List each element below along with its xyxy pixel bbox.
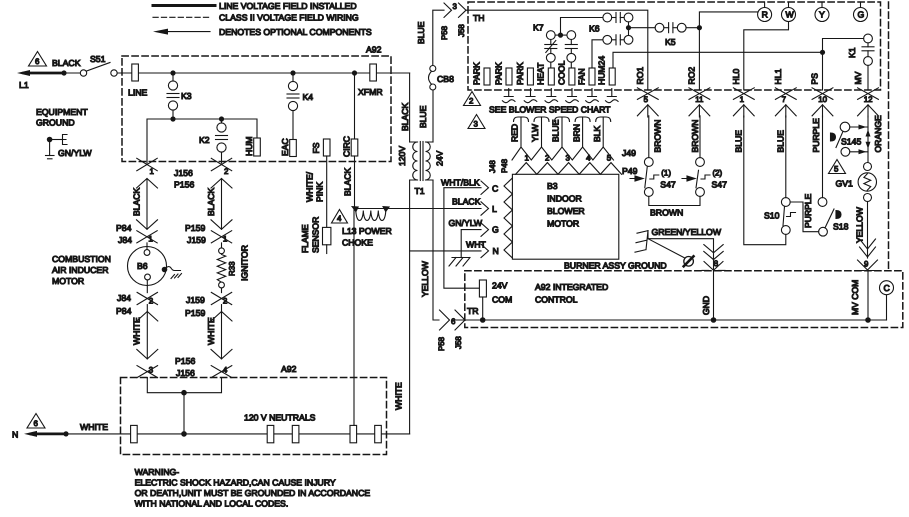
svg-text:3: 3 [566, 154, 571, 163]
svg-text:L: L [492, 204, 497, 214]
wire S51 to LINE terminal [117, 72, 132, 74]
equipment ground label [36, 107, 88, 128]
wire: W to HL0 pin 1 [744, 22, 789, 90]
svg-text:HEAT: HEAT [536, 62, 546, 85]
svg-text:BLACK: BLACK [343, 168, 353, 196]
svg-text:GN/YLW: GN/YLW [58, 148, 92, 158]
wire: junction to K1 [823, 39, 864, 53]
B6 chassis ground symbol [165, 267, 182, 279]
label J159 P159 (lower) [185, 295, 205, 318]
wire: PS pin10 down (PURPLE) [822, 116, 824, 198]
svg-text:120 V NEUTRALS: 120 V NEUTRALS [244, 413, 316, 423]
svg-text:2: 2 [149, 297, 153, 306]
svg-text:BLACK: BLACK [52, 58, 81, 68]
svg-text:WHT: WHT [466, 240, 486, 250]
svg-text:BLACK: BLACK [132, 188, 142, 216]
svg-text:P156: P156 [174, 180, 194, 190]
blower L terminal wire (BLACK) [452, 197, 497, 216]
svg-text:GV1: GV1 [836, 179, 854, 189]
svg-text:BROWN: BROWN [650, 208, 683, 218]
svg-text:P159: P159 [185, 308, 205, 318]
svg-text:ORANGE: ORANGE [873, 115, 883, 153]
svg-text:RED: RED [510, 124, 520, 142]
svg-text:S47: S47 [712, 180, 728, 190]
svg-text:P159: P159 [185, 223, 205, 233]
speed wire RED [510, 117, 529, 147]
terminal HEAT [536, 62, 555, 85]
svg-text:INDOOR: INDOOR [547, 194, 582, 204]
gas valve GV1 [836, 163, 877, 202]
node: TR junction dot [480, 317, 486, 323]
svg-text:CHOKE: CHOKE [342, 238, 373, 248]
terminal LINE [128, 64, 148, 98]
terminal PARK [515, 62, 534, 85]
wire: MV pin12 down (ORANGE) [867, 116, 869, 162]
wire: FS terminal to flame sensor (WHITE/PINK) [305, 156, 327, 227]
connector pin 10 [812, 88, 833, 117]
field wiring hook [566, 89, 579, 103]
terminal CIRC [342, 136, 358, 157]
terminal FAN [576, 68, 595, 85]
svg-text:K2: K2 [199, 135, 210, 145]
equipment ground symbol [46, 135, 93, 159]
svg-text:HUM: HUM [244, 136, 254, 156]
svg-text:BLOWER: BLOWER [547, 206, 585, 216]
svg-text:COMBUSTION: COMBUSTION [52, 254, 111, 264]
triangle note 5 [829, 160, 846, 174]
terminal HUM24 [597, 56, 616, 85]
svg-text:5: 5 [644, 95, 649, 104]
relay contacts K6 [589, 13, 633, 45]
node: PS junction dot [820, 50, 825, 55]
svg-text:WHITE: WHITE [80, 422, 108, 432]
wire: control common bus [483, 319, 887, 321]
svg-text:C: C [492, 184, 498, 194]
svg-text:LINE: LINE [128, 88, 148, 98]
svg-text:B6: B6 [137, 261, 148, 271]
label: combustion air inducer motor [52, 254, 111, 286]
blower C terminal wire (WHT/BLK) [441, 178, 498, 289]
A92 line-voltage control box (dashed) [122, 45, 391, 162]
wire: S47 bottoms joined (BROWN) [649, 196, 700, 217]
label MV COM [850, 271, 868, 321]
speed wire YLW [530, 117, 549, 147]
svg-text:TH: TH [473, 13, 485, 23]
limit switch S10 [764, 198, 796, 235]
ground screw symbol [684, 256, 694, 266]
connector J159 pin 2 [211, 292, 231, 305]
node: N junction dot [63, 431, 68, 436]
wire: CIRC to blower L (BLACK) [343, 156, 482, 209]
burner assy ground wire (GREEN/YELLOW) [635, 227, 723, 270]
connector pin 12 [858, 88, 879, 117]
svg-text:LINE VOLTAGE FIELD INSTALLED: LINE VOLTAGE FIELD INSTALLED [219, 1, 357, 11]
triangle note 6 at L1 [29, 52, 47, 67]
wire: bus to T1 primary (BLACK) [400, 73, 410, 142]
svg-text:AIR INDUCER: AIR INDUCER [52, 265, 108, 275]
wire: S10 top to S18 (PURPLE) [790, 193, 818, 231]
switch S51 [80, 54, 117, 76]
neutral terminal rect 1 [131, 425, 138, 442]
wire: K7 contacts to HEAT/COOL [551, 62, 572, 68]
pressure switch S47 (2) [682, 116, 727, 197]
wire: B6 to pin 2 [146, 280, 148, 293]
svg-text:P58: P58 [440, 25, 449, 40]
connector J156/P156 pin 2 [211, 158, 232, 188]
svg-text:HUM24: HUM24 [597, 56, 607, 85]
svg-text:1: 1 [223, 234, 227, 243]
svg-text:PURPLE: PURPLE [811, 118, 821, 153]
svg-text:P84: P84 [116, 223, 132, 233]
wire: HL1 pin7 down (BLUE) [785, 116, 787, 198]
svg-text:ELECTRIC SHOCK HAZARD,CAN CAUS: ELECTRIC SHOCK HAZARD,CAN CAUSE INJURY [135, 478, 336, 488]
svg-text:1: 1 [150, 167, 154, 176]
svg-text:HL0: HL0 [731, 69, 741, 85]
triangle note 3 [468, 115, 485, 129]
transformer T1 [397, 142, 445, 197]
wire: junction up to R [699, 12, 757, 28]
rollout switch S145 (optional) [831, 122, 871, 156]
svg-text:J58: J58 [457, 24, 466, 37]
svg-text:S47: S47 [660, 180, 676, 190]
wire: pin2 to pin3 (WHITE) with arrows [132, 305, 158, 378]
svg-text:G: G [492, 225, 499, 235]
svg-text:(1): (1) [661, 169, 671, 178]
wire: HL0 pin1 down and across (BLUE) [744, 116, 786, 245]
wire L1 dot to S51 [64, 72, 80, 74]
terminal PARK [471, 62, 490, 85]
node: GND dot [711, 317, 717, 323]
thermostat terminal G [854, 2, 868, 22]
svg-text:24V: 24V [492, 281, 508, 291]
wire: K7 junction to K6 [561, 18, 603, 36]
svg-text:C: C [884, 283, 890, 293]
svg-text:K3: K3 [181, 91, 192, 101]
svg-text:BLACK: BLACK [400, 103, 410, 131]
label J84 P84 (lower) [116, 293, 132, 316]
svg-text:(2): (2) [713, 169, 723, 178]
node: K6 junction dot [626, 25, 631, 30]
svg-text:J49: J49 [622, 148, 636, 158]
svg-text:J159: J159 [186, 295, 205, 305]
svg-text:P58: P58 [437, 336, 446, 351]
svg-text:CLASS II VOLTAGE FIELD WIRING: CLASS II VOLTAGE FIELD WIRING [219, 13, 359, 23]
svg-text:BLUE: BLUE [734, 130, 744, 153]
triangle note 4 (choke) [332, 210, 348, 224]
svg-text:S145: S145 [841, 137, 861, 147]
label J156 P156 (top) [174, 168, 194, 190]
wire: T1 secondary to plug 6 (YELLOW) [420, 180, 439, 320]
pressure switch S47 (1) [630, 116, 676, 197]
node: MV COM dot [865, 317, 871, 323]
speed wire BRN [571, 117, 590, 147]
connector J49 pins 1-5 [512, 147, 636, 163]
svg-text:4: 4 [586, 154, 591, 163]
wire: bus to CIRC terminal [354, 73, 356, 139]
field wiring hook [545, 89, 558, 103]
svg-text:YELLOW: YELLOW [855, 206, 865, 243]
svg-text:6: 6 [35, 57, 40, 66]
label J48 P48 [488, 158, 509, 173]
connector pin 11 [689, 88, 710, 117]
svg-text:BLUE: BLUE [416, 21, 426, 44]
svg-text:YELLOW: YELLOW [420, 260, 430, 297]
svg-text:GND: GND [701, 296, 711, 315]
wire: HUM24 to PS junction [613, 52, 823, 68]
wire: 120V line bus [132, 72, 410, 74]
svg-text:XFMR: XFMR [358, 87, 383, 97]
svg-text:K6: K6 [589, 24, 600, 34]
wire: pins 3,4 join to neutral [147, 378, 221, 393]
terminal FS [311, 139, 330, 156]
svg-text:BROWN: BROWN [653, 120, 663, 153]
triangle note 6 at N [27, 414, 45, 429]
wire: K5 to R junction [686, 27, 699, 29]
svg-text:CIRC: CIRC [342, 136, 352, 157]
motor B6 [128, 243, 167, 286]
svg-text:L1: L1 [19, 80, 29, 90]
svg-text:IGNITOR: IGNITOR [240, 245, 250, 281]
connector pin 9 [858, 260, 878, 271]
svg-text:WHITE/: WHITE/ [305, 171, 315, 202]
svg-text:1: 1 [148, 234, 152, 243]
svg-text:WITH NATIONAL AND LOCAL CODES.: WITH NATIONAL AND LOCAL CODES. [135, 499, 289, 509]
svg-text:2: 2 [224, 167, 228, 176]
node: dot K3 bottom [170, 116, 175, 121]
wire: K6 junction to K5 [629, 27, 656, 29]
svg-text:COM: COM [492, 295, 512, 305]
terminal C circle [880, 281, 894, 320]
node: dot on neutral bus [181, 431, 187, 437]
svg-text:OR DEATH,UNIT MUST BE GROUNDED: OR DEATH,UNIT MUST BE GROUNDED IN ACCORD… [135, 488, 371, 498]
connector P49 sawtooth [516, 163, 638, 176]
legend: line voltage field installed [153, 1, 357, 11]
svg-text:7: 7 [782, 95, 786, 104]
svg-text:J48: J48 [488, 160, 497, 173]
svg-text:K5: K5 [665, 37, 676, 47]
label P159 J159 (top) [185, 223, 206, 245]
circuit breaker CB8 [429, 66, 455, 91]
wire: 24V feed from plug 3 to RO1 [466, 10, 648, 90]
svg-text:11: 11 [695, 95, 703, 104]
svg-text:3: 3 [149, 366, 154, 375]
node: bus dot at K3 [170, 70, 175, 75]
wire: J156 pin2 to ignitor (BLACK) [206, 179, 232, 230]
wire: GV1 down to pin 9 (YELLOW) [855, 202, 876, 259]
svg-text:SEE BLOWER SPEED CHART: SEE BLOWER SPEED CHART [489, 105, 611, 115]
svg-text:N: N [493, 246, 499, 256]
svg-text:CB8: CB8 [437, 74, 454, 84]
svg-text:PARK: PARK [515, 62, 525, 85]
svg-text:BLUE: BLUE [551, 119, 561, 142]
field wiring hook [586, 89, 599, 103]
svg-text:RO2: RO2 [687, 67, 697, 85]
svg-text:W: W [786, 10, 795, 20]
wire: K6 bottom to FAN [592, 40, 603, 68]
wire: T1 secondary to CB8 (BLUE) [418, 90, 433, 142]
svg-text:BLK: BLK [592, 125, 602, 142]
svg-text:SENSOR: SENSOR [311, 217, 321, 253]
svg-text:P49: P49 [622, 166, 638, 176]
legend: class II voltage field wiring [153, 13, 359, 23]
neutral terminal rect 5 [375, 425, 382, 442]
svg-text:BLUE: BLUE [418, 105, 428, 128]
svg-text:PINK: PINK [315, 182, 325, 202]
A92 integrated control box (dashed) [465, 271, 903, 328]
svg-text:J84: J84 [117, 293, 131, 303]
terminal PARK [493, 62, 512, 85]
terminal 24V COM [479, 280, 512, 320]
svg-text:MV COM: MV COM [850, 280, 860, 315]
A92 neutrals box (dashed) [121, 364, 387, 455]
connector P156/J156 pin 3 [149, 366, 154, 375]
svg-text:BROWN: BROWN [690, 120, 700, 153]
legend: denotes optional components arrow [153, 27, 372, 37]
node: junction dot pins3-4 [181, 390, 187, 396]
ignitor R33 [217, 243, 249, 288]
svg-text:8: 8 [714, 259, 719, 268]
wire: junction down to RO2 pin 11 [698, 28, 700, 90]
switch S18 [818, 198, 849, 237]
svg-text:Y: Y [819, 10, 825, 20]
svg-text:A92: A92 [281, 364, 297, 374]
svg-text:R33: R33 [228, 261, 237, 276]
svg-text:3: 3 [474, 120, 479, 129]
node: bus dot at K4 [290, 70, 295, 75]
speed wire BLK [592, 117, 611, 147]
node: bus dot at CIRC [352, 70, 357, 75]
svg-text:A92 INTEGRATED: A92 INTEGRATED [535, 282, 608, 292]
relay coil K1 [847, 34, 874, 90]
node: L1 junction dot [61, 70, 66, 75]
svg-text:1: 1 [740, 95, 744, 104]
node: K7 junction dot [558, 33, 563, 38]
svg-text:TR: TR [467, 306, 479, 316]
svg-text:4: 4 [223, 366, 228, 375]
connector pin 7 [775, 88, 796, 117]
neutral terminal rect 3 [292, 425, 299, 442]
svg-text:MOTOR: MOTOR [52, 276, 84, 286]
connector plug 3 (P58/J58) [440, 2, 466, 40]
svg-text:J58: J58 [454, 336, 463, 349]
svg-text:COOL: COOL [556, 60, 566, 85]
TH thermostat terminal box (dashed) [468, 2, 881, 90]
connector J156/P156 pin 1 [137, 158, 158, 188]
svg-text:YLW: YLW [530, 123, 540, 142]
connector P84/J84 pin 1 [137, 231, 157, 244]
svg-text:J156: J156 [176, 368, 195, 378]
blower G terminal wire (GN/YLW) [449, 218, 500, 258]
svg-text:1: 1 [525, 154, 529, 163]
connector pin 1 [733, 88, 754, 117]
svg-text:PARK: PARK [471, 62, 481, 85]
connector pin 8 [702, 259, 725, 270]
svg-text:PARK: PARK [493, 62, 503, 85]
svg-text:120V: 120V [397, 146, 407, 166]
wire: neutral bus [66, 433, 410, 435]
svg-text:L13 POWER: L13 POWER [342, 226, 392, 236]
relay coil K3 [167, 73, 192, 119]
node: R junction dot [697, 25, 702, 30]
connector P156/J156 pin 4 [223, 366, 228, 375]
terminal COOL [556, 60, 575, 85]
svg-text:A92: A92 [366, 45, 382, 55]
svg-text:BURNER ASSY GROUND: BURNER ASSY GROUND [564, 261, 667, 271]
connector pin 5 [637, 88, 658, 117]
svg-text:EQUIPMENT: EQUIPMENT [36, 107, 88, 117]
svg-text:S10: S10 [764, 211, 780, 221]
svg-text:5: 5 [607, 154, 612, 163]
relay coil K2 [199, 119, 228, 163]
svg-text:3: 3 [453, 2, 458, 11]
svg-text:FS: FS [311, 142, 321, 153]
svg-text:WHITE: WHITE [394, 382, 404, 410]
neutral terminal rect 2 [267, 425, 274, 442]
svg-text:T1: T1 [415, 186, 425, 196]
wire: junction down to neutral terminal [353, 209, 355, 426]
svg-text:5: 5 [834, 165, 839, 174]
L1 field wire (thick black) with arrowhead [17, 58, 81, 90]
node: dot K2 top [219, 116, 224, 121]
svg-text:RO1: RO1 [635, 67, 645, 85]
svg-text:BRN: BRN [571, 124, 581, 142]
svg-text:GN/YLW: GN/YLW [449, 218, 483, 228]
svg-text:P156: P156 [175, 356, 195, 366]
svg-text:MV: MV [853, 71, 863, 84]
svg-text:2: 2 [469, 97, 473, 106]
svg-text:S51: S51 [90, 54, 106, 64]
wire: J156 pin1 to B6 (BLACK) [132, 179, 158, 230]
label GND [701, 271, 714, 321]
svg-text:BLACK: BLACK [206, 188, 216, 216]
svg-text:12: 12 [864, 95, 873, 104]
svg-text:J156: J156 [174, 168, 193, 178]
triangle note 2 [464, 92, 481, 106]
svg-text:6: 6 [34, 419, 39, 428]
terminal HUM [244, 136, 260, 156]
label P84 J84 [116, 223, 132, 245]
svg-text:CONTROL: CONTROL [535, 295, 578, 305]
svg-text:HL1: HL1 [773, 69, 783, 85]
svg-text:R: R [762, 10, 768, 20]
svg-text:PURPLE: PURPLE [803, 193, 813, 228]
svg-text:P48: P48 [500, 158, 509, 173]
flame sensor element [300, 217, 331, 254]
terminal XFMR [358, 64, 383, 97]
class II field wiring boundary (dashed) [888, 2, 890, 271]
svg-text:J84: J84 [118, 235, 132, 245]
field wiring hook [606, 89, 619, 103]
neutral terminal rect 4 [350, 425, 357, 442]
inductor L13 power choke (optional) [342, 206, 392, 248]
relay coil K4 [287, 73, 313, 140]
wire: R33 to pin 2 [221, 288, 223, 293]
svg-text:GREEN/YELLOW: GREEN/YELLOW [652, 227, 722, 237]
svg-text:2: 2 [223, 297, 227, 306]
wire: K3/K2 branch to J156 pins [147, 119, 257, 163]
svg-text:24V: 24V [435, 150, 445, 166]
field wiring hook [524, 89, 537, 103]
svg-text:9: 9 [864, 260, 869, 269]
burner chassis ground symbol [449, 258, 470, 267]
svg-text:EAC: EAC [280, 138, 290, 156]
wire: junction to neutral bus [183, 393, 185, 434]
svg-text:WHT/BLK: WHT/BLK [441, 178, 480, 188]
svg-text:K7: K7 [533, 23, 544, 33]
svg-text:G: G [858, 10, 865, 20]
svg-text:6: 6 [451, 317, 456, 326]
N field wire (thick) with arrowhead [12, 422, 108, 440]
